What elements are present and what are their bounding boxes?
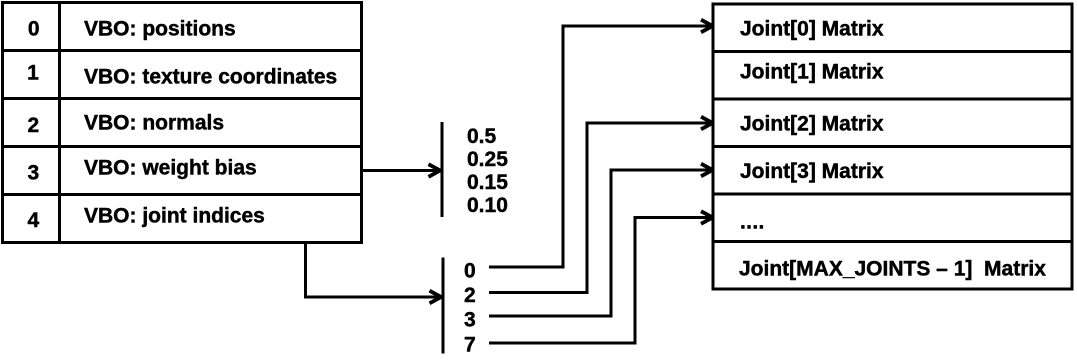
svg-text:3: 3 [27,162,39,185]
svg-text:VBO: texture coordinates: VBO: texture coordinates [84,66,337,89]
svg-text:0.25: 0.25 [467,148,508,171]
svg-text:2: 2 [464,284,476,307]
svg-text:VBO: joint indices: VBO: joint indices [84,205,265,228]
svg-text:Joint[0] Matrix: Joint[0] Matrix [740,18,884,41]
svg-text:0.15: 0.15 [467,171,508,194]
svg-text:2: 2 [27,114,39,137]
svg-text:0: 0 [28,18,40,41]
svg-text:Joint[1] Matrix: Joint[1] Matrix [740,61,884,84]
svg-text:Joint[MAX_JOINTS – 1] Matrix: Joint[MAX_JOINTS – 1] Matrix [739,257,1046,280]
svg-text:VBO: positions: VBO: positions [84,17,236,40]
svg-text:7: 7 [464,334,476,357]
svg-text:0.5: 0.5 [467,125,497,148]
svg-text:0.10: 0.10 [467,194,508,217]
svg-text:0: 0 [464,260,476,283]
svg-text:Joint[2] Matrix: Joint[2] Matrix [740,113,884,136]
svg-text:....: .... [740,210,765,233]
svg-text:Joint[3] Matrix: Joint[3] Matrix [740,160,884,183]
svg-text:VBO: normals: VBO: normals [84,112,224,135]
svg-text:1: 1 [27,62,39,85]
svg-text:3: 3 [464,309,476,332]
svg-text:VBO: weight bias: VBO: weight bias [84,157,257,180]
svg-text:4: 4 [27,209,39,232]
